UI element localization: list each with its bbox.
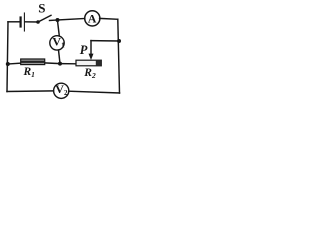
svg-text:A: A: [88, 11, 97, 25]
wire node to ammeter: [58, 19, 85, 21]
wire top left to battery: [8, 21, 19, 23]
node dot right wire (wiper branch): [117, 39, 121, 43]
voltmeter V1 circle: [50, 36, 64, 50]
wire R1 to left wire: [8, 62, 21, 65]
switch left contact dot: [36, 20, 40, 24]
node dot top (V1 tap): [56, 18, 60, 22]
ammeter U-A circle: [85, 11, 100, 26]
resistor R2 box: [76, 60, 101, 66]
battery cell: [20, 18, 22, 27]
wire bottom left: [7, 90, 54, 93]
wire right vertical: [118, 19, 120, 93]
wire middle R2 to node: [60, 63, 76, 65]
voltmeter V1 bottom lead: [59, 50, 61, 64]
svg-text:P: P: [80, 43, 88, 57]
node dot left wire (R1 tap): [6, 62, 10, 66]
voltmeter V1 top lead: [57, 20, 59, 36]
node dot middle (V1 lower tap): [58, 62, 62, 66]
wire wiper branch horizontal: [91, 40, 119, 42]
wire bottom right: [69, 91, 120, 93]
wire left vertical: [7, 22, 8, 92]
switch S blade: [38, 15, 51, 22]
wire battery to switch: [25, 21, 38, 23]
resistor R1 box: [21, 59, 45, 65]
resistor R1 inner streak: [22, 61, 45, 63]
resistor R2 right dark block: [96, 60, 102, 66]
wire node to R1: [45, 62, 60, 65]
voltmeter V2 circle: [54, 83, 69, 98]
wire switch to node: [50, 19, 58, 22]
wire ammeter to top right corner: [100, 17, 118, 20]
rheostat wiper P arrow: [90, 41, 92, 55]
rheostat arrowhead: [89, 54, 94, 60]
svg-text:S: S: [38, 1, 45, 16]
